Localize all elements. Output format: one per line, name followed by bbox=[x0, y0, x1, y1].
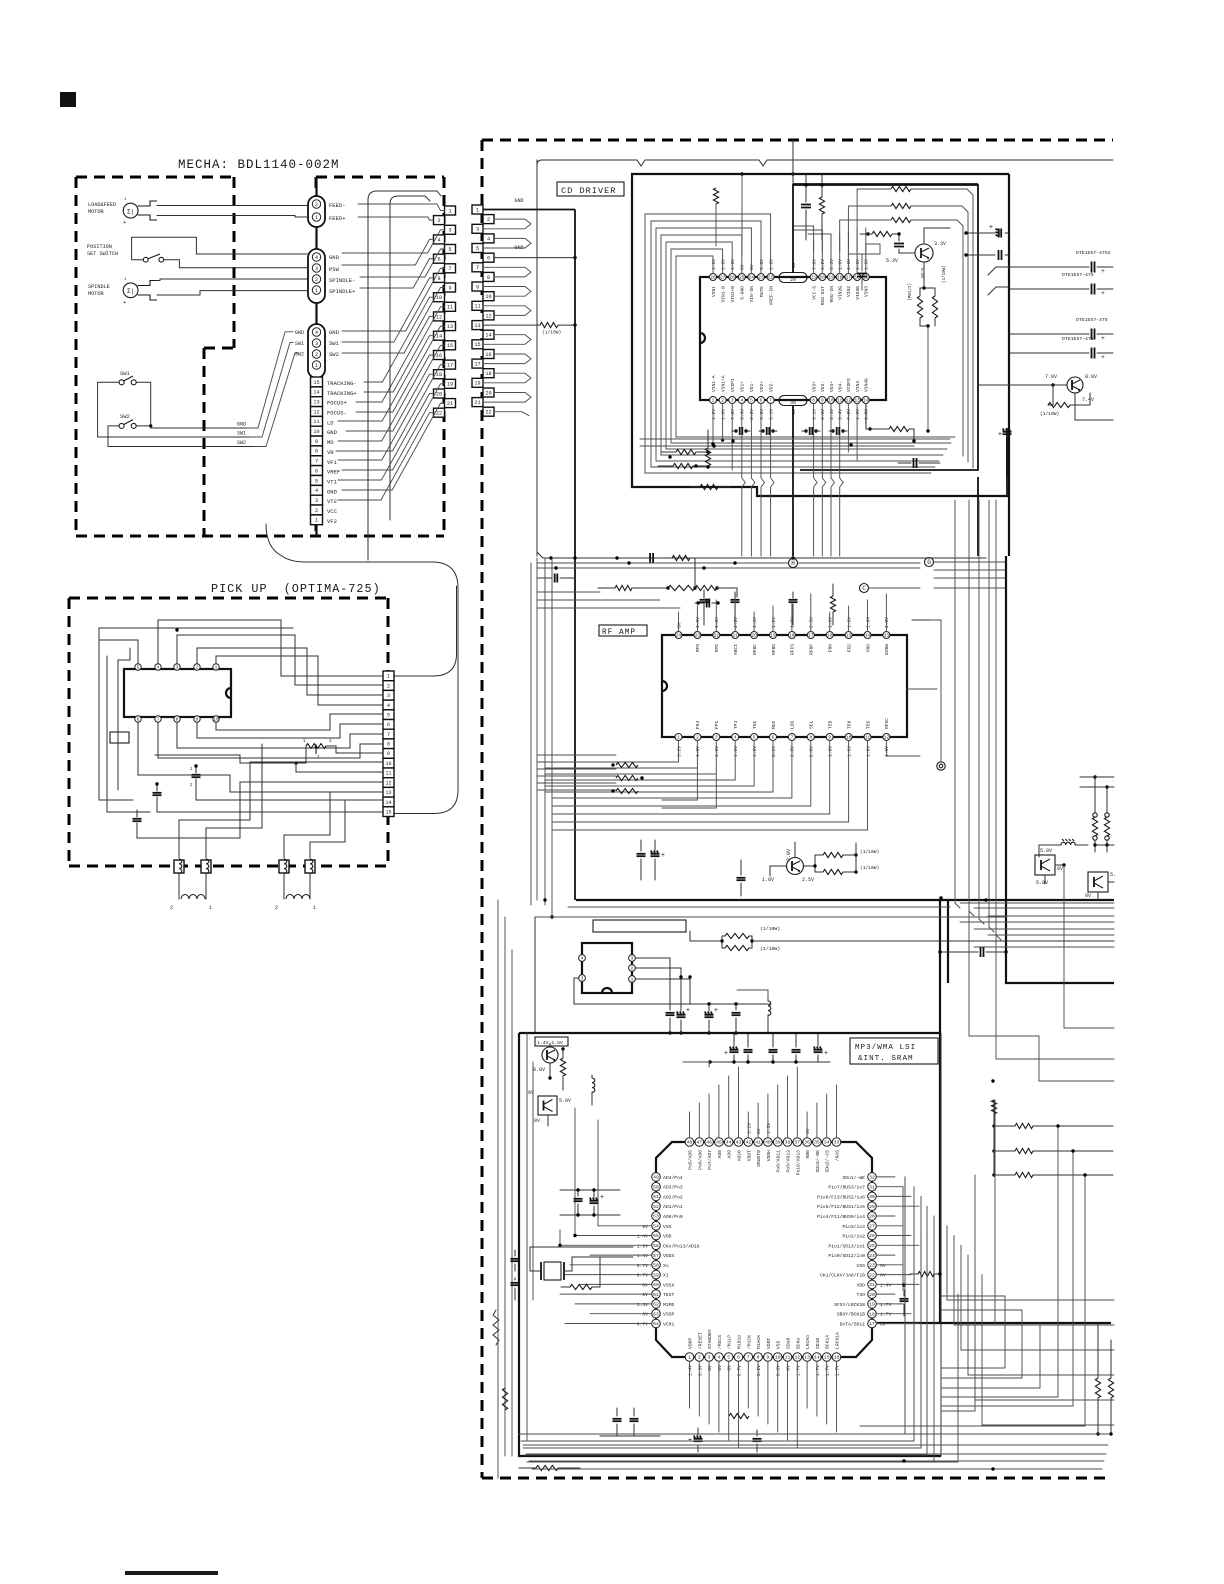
svg-text:VD1-: VD1- bbox=[749, 381, 755, 392]
svg-text:0V: 0V bbox=[880, 1322, 886, 1328]
svg-text:12: 12 bbox=[794, 1355, 800, 1361]
svg-text:VREF: VREF bbox=[327, 469, 340, 476]
svg-text:12: 12 bbox=[313, 409, 319, 415]
top rail wires bbox=[537, 552, 986, 558]
svg-text:(1/10W): (1/10W) bbox=[860, 865, 879, 871]
svg-text:AD4/Po4: AD4/Po4 bbox=[663, 1175, 683, 1181]
svg-text:47: 47 bbox=[696, 1140, 702, 1146]
fan wires labels to boxes bbox=[358, 204, 445, 211]
svg-text:1: 1 bbox=[387, 674, 390, 680]
svg-text:MECHA: BDL1140-002M: MECHA: BDL1140-002M bbox=[178, 158, 340, 172]
svg-text:GND: GND bbox=[237, 422, 246, 428]
cap below Q2 bbox=[1003, 431, 1012, 433]
svg-text:35: 35 bbox=[814, 1140, 820, 1146]
svg-text:VREF-IN: VREF-IN bbox=[768, 286, 774, 306]
svg-text:(1/10W): (1/10W) bbox=[542, 330, 561, 336]
caps below U3 bbox=[613, 1418, 622, 1420]
U3 bottom pins bbox=[685, 1353, 694, 1362]
bead vertical above MP3 bbox=[768, 1001, 771, 1015]
svg-text:1: 1 bbox=[315, 288, 318, 294]
svg-text:VDDX: VDDX bbox=[663, 1253, 674, 1259]
svg-text:VDDP: VDDP bbox=[688, 1338, 694, 1349]
svg-text:2: 2 bbox=[170, 905, 173, 911]
svg-text:14: 14 bbox=[865, 634, 871, 639]
svg-text:VIN1: VIN1 bbox=[711, 286, 717, 297]
svg-text:SDo3/-OE: SDo3/-OE bbox=[815, 1150, 821, 1173]
wire M1 to FEED bbox=[157, 205, 307, 207]
svg-text:VIN4: VIN4 bbox=[855, 381, 861, 392]
svg-text:1.0V: 1.0V bbox=[714, 617, 720, 628]
left vertical resistor bbox=[502, 1388, 507, 1410]
svg-text:0V: 0V bbox=[805, 1128, 811, 1134]
pickup connector 1-15 bbox=[383, 671, 394, 681]
svg-text:0V: 0V bbox=[749, 264, 755, 270]
svg-text:VD3-: VD3- bbox=[820, 381, 826, 392]
svg-text:28: 28 bbox=[710, 276, 716, 281]
U2 bottom pins bbox=[675, 734, 682, 741]
svg-text:7: 7 bbox=[769, 399, 772, 404]
svg-text:SPINDLE-: SPINDLE- bbox=[329, 277, 355, 284]
svg-text:3.3V: 3.3V bbox=[637, 1302, 648, 1308]
svg-text:2.0V: 2.0V bbox=[790, 746, 796, 757]
svg-text:1.2V: 1.2V bbox=[771, 617, 777, 628]
svg-text:1.6V: 1.6V bbox=[865, 746, 871, 757]
cap below RF mid bbox=[737, 877, 746, 879]
svg-text:(1/10W): (1/10W) bbox=[760, 926, 780, 932]
svg-text:VD3+: VD3+ bbox=[811, 381, 817, 392]
svg-text:4: 4 bbox=[315, 488, 318, 494]
mid rail pair bbox=[568, 906, 950, 908]
svg-text:0V: 0V bbox=[1057, 866, 1063, 872]
svg-text:Σ|: Σ| bbox=[127, 288, 134, 295]
svg-text:SDo1/-WE: SDo1/-WE bbox=[842, 1175, 865, 1181]
svg-text:+: + bbox=[1101, 268, 1105, 275]
svg-text:15: 15 bbox=[313, 380, 319, 386]
U3 right pins bbox=[868, 1173, 877, 1182]
svg-text:13: 13 bbox=[313, 400, 319, 406]
resistor above RF IC v bbox=[830, 596, 835, 612]
electrolytic caps DTE1E57 bbox=[1091, 262, 1093, 273]
svg-text:16: 16 bbox=[827, 634, 833, 639]
resistor below U3 bbox=[729, 1413, 749, 1418]
svg-text:1: 1 bbox=[215, 666, 218, 671]
svg-text:12: 12 bbox=[846, 399, 852, 404]
svg-text:21: 21 bbox=[447, 401, 453, 407]
svg-text:3.6V: 3.6V bbox=[820, 409, 826, 420]
svg-text:6: 6 bbox=[437, 257, 440, 263]
caps row above MP3 bbox=[666, 1012, 675, 1014]
cap at REG-IN bbox=[857, 273, 867, 275]
svg-text:4: 4 bbox=[487, 236, 490, 242]
svg-text:19: 19 bbox=[869, 1302, 875, 1308]
svg-text:+: + bbox=[123, 299, 126, 306]
resistor right-bottom of U1 bbox=[868, 427, 871, 430]
svg-text:X1: X1 bbox=[663, 1273, 669, 1279]
connector stub wires bbox=[483, 209, 575, 211]
svg-text:+: + bbox=[661, 852, 665, 860]
svg-text:RFBO: RFBO bbox=[771, 644, 777, 655]
svg-text:VD1+: VD1+ bbox=[740, 381, 746, 392]
U3 left pins bbox=[652, 1173, 661, 1182]
svg-text:1.6V: 1.6V bbox=[730, 259, 736, 270]
svg-text:+: + bbox=[1101, 354, 1105, 361]
svg-text:3.6V: 3.6V bbox=[759, 409, 765, 420]
svg-text:1.7V: 1.7V bbox=[835, 1365, 841, 1376]
svg-text:1.6V: 1.6V bbox=[828, 617, 834, 628]
svg-text:22: 22 bbox=[436, 411, 442, 417]
svg-text:Po9/AD12: Po9/AD12 bbox=[786, 1150, 792, 1173]
svg-text:VDDT: VDDT bbox=[746, 1150, 752, 1161]
svg-text:4: 4 bbox=[315, 255, 318, 261]
cap on bus bbox=[980, 947, 982, 957]
svg-text:M1ACK: M1ACK bbox=[756, 1335, 762, 1349]
svg-text:24: 24 bbox=[869, 1253, 875, 1259]
svg-text:26: 26 bbox=[730, 276, 736, 281]
svg-text:21: 21 bbox=[811, 276, 817, 281]
svg-text:3.4V: 3.4V bbox=[829, 409, 835, 420]
svg-text:TPJ: TPJ bbox=[733, 720, 739, 729]
svg-text:8: 8 bbox=[437, 276, 440, 282]
svg-text:Po5/AD5: Po5/AD5 bbox=[688, 1150, 694, 1170]
svg-text:Po6/AD6: Po6/AD6 bbox=[697, 1150, 703, 1170]
svg-text:DTE1E57-4752: DTE1E57-4752 bbox=[1076, 250, 1111, 256]
wire S1 bbox=[132, 237, 307, 259]
boxed transistor Q7 bbox=[538, 1096, 557, 1115]
svg-text:RFBP: RFBP bbox=[809, 644, 815, 655]
svg-text:5.3V: 5.3V bbox=[829, 259, 835, 270]
svg-text:STANDBY: STANDBY bbox=[707, 1329, 713, 1349]
svg-text:5: 5 bbox=[750, 399, 753, 404]
svg-text:REG-OUT: REG-OUT bbox=[820, 286, 826, 306]
svg-text:0V: 0V bbox=[756, 1128, 762, 1134]
svg-text:1: 1 bbox=[313, 905, 316, 911]
svg-text:Po7/AD7: Po7/AD7 bbox=[707, 1150, 713, 1170]
svg-text:14: 14 bbox=[863, 399, 869, 404]
CD inner thick power loop bbox=[793, 185, 978, 470]
svg-text:(1/10W): (1/10W) bbox=[942, 265, 947, 283]
svg-text:2.5V: 2.5V bbox=[802, 877, 814, 883]
boxed transistor Q5 bbox=[1088, 872, 1108, 892]
svg-text:Pio1/SD13/io1: Pio1/SD13/io1 bbox=[828, 1243, 865, 1249]
svg-text:2.7V: 2.7V bbox=[737, 1365, 743, 1376]
svg-text:3.2V: 3.2V bbox=[756, 1365, 762, 1376]
pickup IC bbox=[124, 669, 231, 717]
right verticals from QFP bbox=[904, 1177, 906, 1434]
svg-text:1.6V: 1.6V bbox=[855, 259, 861, 270]
wire GND to conn bbox=[247, 332, 293, 428]
svg-text:VCC: VCC bbox=[327, 508, 338, 515]
svg-text:2: 2 bbox=[631, 967, 634, 972]
svg-text:3.1V: 3.1V bbox=[811, 409, 817, 420]
svg-text:8: 8 bbox=[176, 718, 179, 723]
pickup trimmer VR1 bbox=[306, 744, 326, 749]
svg-text:21: 21 bbox=[733, 634, 739, 639]
svg-text:9: 9 bbox=[387, 751, 390, 757]
caps above RF IC bbox=[700, 599, 709, 601]
svg-text:4: 4 bbox=[387, 703, 390, 709]
svg-text:4: 4 bbox=[734, 736, 737, 741]
svg-text:17: 17 bbox=[474, 362, 480, 368]
svg-text:6.0V: 6.0V bbox=[919, 268, 924, 279]
svg-text:48: 48 bbox=[687, 1140, 693, 1146]
page corner marker bbox=[60, 92, 76, 107]
svg-text:11: 11 bbox=[837, 399, 843, 404]
U3 top wires bbox=[689, 1112, 691, 1138]
svg-text:0V: 0V bbox=[880, 1273, 886, 1279]
svg-text:3.1V: 3.1V bbox=[768, 409, 774, 420]
CD driver IC U1 bbox=[700, 277, 886, 400]
svg-text:5.0V: 5.0V bbox=[759, 259, 765, 270]
svg-text:12: 12 bbox=[436, 314, 442, 320]
svg-text:VIN1-B: VIN1-B bbox=[720, 286, 726, 303]
svg-text:2: 2 bbox=[315, 352, 318, 358]
svg-text:7.0V: 7.0V bbox=[1045, 374, 1057, 380]
svg-text:18: 18 bbox=[789, 634, 795, 639]
svg-text:M1MD: M1MD bbox=[663, 1302, 674, 1308]
svg-text:9: 9 bbox=[821, 399, 824, 404]
svg-text:TRACKING-: TRACKING- bbox=[327, 380, 357, 387]
board connector boxes 1-22 bbox=[472, 205, 483, 214]
bead FB2 bbox=[201, 860, 211, 873]
left bus verticals MP3 bbox=[504, 917, 506, 1456]
svg-text:SBSY/BCK1B: SBSY/BCK1B bbox=[837, 1312, 865, 1318]
svg-text:3.3V: 3.3V bbox=[697, 1365, 703, 1376]
svg-text:VDDT: VDDT bbox=[766, 1338, 772, 1349]
bead FB3 bbox=[279, 860, 289, 873]
svg-text:9: 9 bbox=[476, 284, 479, 290]
svg-text:14: 14 bbox=[313, 390, 319, 396]
svg-text:2: 2 bbox=[275, 905, 278, 911]
svg-text:1.3V: 1.3V bbox=[752, 617, 758, 628]
svg-text:GND: GND bbox=[327, 429, 338, 436]
transistor Q3 2.0V bbox=[787, 858, 804, 875]
resistor near crystal bbox=[570, 1284, 592, 1289]
MECHA dashed boundary bbox=[76, 176, 234, 179]
svg-text:18: 18 bbox=[485, 371, 491, 377]
U1 bottom pin wires bbox=[712, 404, 714, 445]
svg-text:0V: 0V bbox=[727, 1365, 733, 1371]
U3 top pins bbox=[685, 1138, 694, 1147]
svg-text:1.6V: 1.6V bbox=[855, 409, 861, 420]
svg-text:4: 4 bbox=[315, 330, 318, 336]
svg-text:M1D1o: M1D1o bbox=[737, 1335, 743, 1349]
svg-text:FEED+: FEED+ bbox=[329, 215, 346, 222]
svg-text:8: 8 bbox=[487, 275, 490, 281]
coil L1 bbox=[178, 873, 180, 899]
svg-text:1.6V: 1.6V bbox=[711, 259, 717, 270]
svg-text:1: 1 bbox=[315, 518, 318, 524]
svg-text:Pio3/io3: Pio3/io3 bbox=[842, 1224, 865, 1230]
svg-text:Pio5/F12/BUS1/io5: Pio5/F12/BUS1/io5 bbox=[817, 1204, 865, 1210]
svg-text:10: 10 bbox=[828, 399, 834, 404]
bead v bbox=[592, 1078, 595, 1092]
svg-text:14: 14 bbox=[485, 333, 491, 339]
svg-text:3: 3 bbox=[708, 1355, 711, 1361]
svg-text:GND: GND bbox=[329, 329, 340, 336]
svg-text:29: 29 bbox=[790, 277, 796, 283]
svg-text:AD1/Po1: AD1/Po1 bbox=[663, 1204, 683, 1210]
svg-text:27: 27 bbox=[720, 276, 726, 281]
svg-text:7.4V: 7.4V bbox=[1082, 397, 1094, 403]
svg-text:VIN1+B: VIN1+B bbox=[730, 286, 736, 303]
svg-text:17: 17 bbox=[808, 634, 814, 639]
Q3 resistors right bbox=[823, 852, 843, 857]
svg-text:13: 13 bbox=[474, 323, 480, 329]
svg-text:1.4V: 1.4V bbox=[688, 1365, 694, 1376]
FEED over-the-top wires bbox=[368, 191, 441, 560]
svg-text:1.6V: 1.6V bbox=[790, 617, 796, 628]
wire elbows to caps bbox=[988, 267, 1009, 275]
svg-text:5: 5 bbox=[727, 1355, 730, 1361]
svg-text:0V: 0V bbox=[676, 622, 682, 628]
svg-text:1.7V: 1.7V bbox=[880, 1312, 891, 1318]
svg-text:3: 3 bbox=[315, 341, 318, 347]
ecap below U3 bbox=[694, 1438, 703, 1440]
svg-text:(1/10W): (1/10W) bbox=[906, 283, 911, 301]
svg-text:+: + bbox=[1101, 290, 1105, 297]
transistor Q1 5.3V bbox=[915, 244, 933, 262]
svg-text:4: 4 bbox=[157, 666, 160, 671]
svg-text:VF2: VF2 bbox=[327, 518, 337, 525]
wire M2 to SPINDLE bbox=[157, 279, 307, 281]
thick bus right bbox=[576, 556, 1114, 1323]
xtal sub-board X1 bbox=[582, 943, 632, 993]
svg-text:13: 13 bbox=[884, 634, 890, 639]
svg-text:39: 39 bbox=[775, 1140, 781, 1146]
svg-text:22: 22 bbox=[485, 410, 491, 416]
svg-text:0V: 0V bbox=[791, 409, 797, 415]
svg-text:22: 22 bbox=[768, 276, 774, 281]
svg-text:DTE1E57-475: DTE1E57-475 bbox=[1062, 272, 1094, 278]
svg-text:3.2V: 3.2V bbox=[820, 259, 826, 270]
svg-text:7.0V: 7.0V bbox=[811, 259, 817, 270]
svg-text:4: 4 bbox=[581, 957, 584, 962]
svg-text:LOAD&FEED: LOAD&FEED bbox=[88, 202, 116, 208]
svg-text:10: 10 bbox=[213, 718, 219, 723]
resistor on rail bbox=[672, 555, 690, 560]
svg-text:C: C bbox=[862, 585, 866, 592]
svg-text:16: 16 bbox=[834, 1355, 840, 1361]
svg-text:3: 3 bbox=[476, 227, 479, 233]
U3 right wires bbox=[876, 1176, 895, 1178]
svg-text:&INT. SRAM: &INT. SRAM bbox=[858, 1055, 914, 1063]
svg-text:42: 42 bbox=[745, 1140, 751, 1146]
svg-text:GND: GND bbox=[295, 330, 304, 336]
crystal X2 bbox=[544, 1262, 561, 1280]
svg-text:TEB: TEB bbox=[828, 720, 834, 729]
svg-text:17: 17 bbox=[846, 276, 852, 281]
svg-text:LDO: LDO bbox=[790, 720, 796, 729]
caps above IC right bbox=[801, 204, 811, 206]
svg-text:23: 23 bbox=[695, 634, 701, 639]
RF AMP label bbox=[599, 625, 647, 636]
svg-text:31: 31 bbox=[869, 1184, 875, 1190]
MP3 QFP U3 bbox=[656, 1142, 872, 1357]
svg-text:VSS: VSS bbox=[857, 1263, 866, 1269]
connector CN15 (15..1) bbox=[311, 377, 323, 387]
svg-text:FEED-: FEED- bbox=[329, 202, 346, 209]
coil L2 bbox=[283, 873, 285, 899]
MP3 block frame bbox=[519, 1033, 941, 1456]
svg-text:22: 22 bbox=[869, 1272, 875, 1278]
svg-text:38: 38 bbox=[785, 1140, 791, 1146]
connector CN spindle (4,3,2,1) bbox=[308, 249, 325, 303]
svg-text:BCK1A: BCK1A bbox=[825, 1335, 831, 1349]
svg-text:3: 3 bbox=[448, 228, 451, 234]
svg-text:VT1: VT1 bbox=[327, 479, 338, 486]
svg-text:SPINDLE: SPINDLE bbox=[88, 284, 110, 290]
svg-text:5.0V: 5.0V bbox=[1036, 880, 1048, 886]
svg-text:5: 5 bbox=[476, 246, 479, 252]
svg-text:+: + bbox=[600, 1194, 604, 1202]
bead FB4 bbox=[305, 860, 315, 873]
svg-text:15: 15 bbox=[385, 809, 391, 815]
svg-text:RFDC: RFDC bbox=[884, 718, 890, 729]
caps below RF left bbox=[637, 853, 646, 855]
svg-text:VIN2: VIN2 bbox=[846, 286, 852, 297]
vertical resistors bottom right bbox=[1095, 1378, 1100, 1398]
U3 bottom wires bbox=[689, 1361, 691, 1408]
svg-text:TRACKING+: TRACKING+ bbox=[327, 390, 357, 397]
svg-text:4: 4 bbox=[717, 1355, 720, 1361]
svg-text:10: 10 bbox=[436, 295, 442, 301]
svg-text:7: 7 bbox=[448, 266, 451, 272]
svg-text:3: 3 bbox=[176, 666, 179, 671]
svg-text:0V: 0V bbox=[642, 1312, 648, 1318]
svg-text:VCOP1: VCOP1 bbox=[730, 378, 736, 392]
svg-text:19: 19 bbox=[770, 634, 776, 639]
svg-text:10: 10 bbox=[313, 429, 319, 435]
svg-text:VIN2G: VIN2G bbox=[838, 286, 844, 300]
svg-text:6: 6 bbox=[487, 256, 490, 262]
svg-text:25: 25 bbox=[869, 1243, 875, 1249]
svg-text:1: 1 bbox=[631, 978, 634, 983]
svg-text:VDD: VDD bbox=[857, 1282, 866, 1288]
svg-text:8.0V: 8.0V bbox=[1085, 374, 1097, 380]
top horizontal wire bbox=[537, 160, 1113, 166]
svg-text:7: 7 bbox=[157, 718, 160, 723]
svg-text:AD0/Po0: AD0/Po0 bbox=[663, 1214, 683, 1220]
svg-text:43: 43 bbox=[736, 1140, 742, 1146]
svg-text:0.2V: 0.2V bbox=[771, 746, 777, 757]
svg-text:28: 28 bbox=[869, 1214, 875, 1220]
svg-text:1: 1 bbox=[448, 208, 451, 214]
svg-text:15: 15 bbox=[846, 634, 852, 639]
svg-text:Pio7/BUS3/io7: Pio7/BUS3/io7 bbox=[828, 1185, 865, 1191]
Q1 collector wire bbox=[924, 228, 950, 244]
svg-text:+: + bbox=[824, 1050, 828, 1058]
svg-text:5: 5 bbox=[315, 478, 318, 484]
svg-text:SW2: SW2 bbox=[237, 440, 246, 446]
svg-text:45: 45 bbox=[716, 1140, 722, 1146]
svg-text:FOCUS-: FOCUS- bbox=[327, 410, 347, 417]
svg-text:10: 10 bbox=[385, 761, 391, 767]
svg-text:AD8: AD8 bbox=[717, 1150, 723, 1159]
svg-text:5: 5 bbox=[387, 712, 390, 718]
svg-text:11: 11 bbox=[447, 305, 453, 311]
svg-text:2.0V: 2.0V bbox=[884, 617, 890, 628]
svg-text:21: 21 bbox=[474, 400, 480, 406]
CD DRIVER label bbox=[557, 182, 624, 196]
svg-text:33: 33 bbox=[834, 1140, 840, 1146]
svg-text:0V: 0V bbox=[534, 1118, 540, 1124]
svg-text:VDD: VDD bbox=[663, 1234, 672, 1240]
svg-text:Pio6/F13/BUS2/io6: Pio6/F13/BUS2/io6 bbox=[817, 1194, 865, 1200]
CD driver block frame bbox=[632, 174, 1009, 556]
svg-text:27: 27 bbox=[869, 1223, 875, 1229]
cap on horizontal wire bbox=[706, 599, 708, 608]
empty label box bbox=[593, 920, 686, 932]
